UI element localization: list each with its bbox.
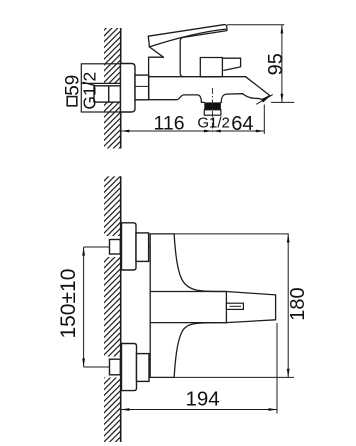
svg-text:95: 95 bbox=[265, 53, 287, 75]
spout top taper bbox=[226, 292, 275, 295]
dimension 180 bbox=[287, 234, 289, 378]
svg-text:116: 116 bbox=[153, 113, 184, 135]
body left edge bbox=[149, 234, 151, 378]
shower outlet thread (black) bbox=[204, 102, 221, 109]
body left edge bbox=[148, 57, 150, 99]
body top edge bbox=[150, 233, 174, 235]
svg-text:G1/2: G1/2 bbox=[197, 115, 230, 132]
dimension 194 bbox=[121, 409, 277, 411]
wall surface line bbox=[120, 176, 122, 442]
dimension 116 / 64 line bbox=[121, 130, 264, 132]
lower connector bbox=[137, 354, 150, 382]
dimension 95 bbox=[227, 25, 294, 103]
diverter block bbox=[200, 58, 222, 77]
wall surface line bbox=[120, 28, 122, 149]
spout band top bbox=[150, 291, 226, 293]
pipe union squares bbox=[94, 86, 121, 102]
body top-left line bbox=[149, 56, 164, 58]
spout divider vertical bbox=[225, 292, 227, 323]
upper escutcheon bbox=[122, 223, 137, 270]
svg-text:64: 64 bbox=[231, 113, 253, 135]
upper connector bbox=[136, 233, 149, 262]
svg-text:180: 180 bbox=[287, 287, 309, 320]
body shoulder line bbox=[149, 76, 246, 78]
outlet axis dash-dot line bbox=[211, 88, 213, 134]
wall hatch upper segment bbox=[104, 28, 121, 84]
upper nut bbox=[110, 240, 121, 255]
lever tail underside diagonal bbox=[149, 47, 163, 57]
cartridge cap top edge bbox=[184, 31, 227, 38]
shower outlet nut bbox=[204, 110, 221, 115]
spout bottom taper bbox=[226, 320, 275, 323]
inlet center lines bbox=[84, 246, 151, 248]
svg-text:194: 194 bbox=[185, 388, 219, 411]
pipe union white backdrop bbox=[94, 83, 121, 102]
dimension 150±10 bbox=[83, 247, 85, 367]
lower nut bbox=[110, 359, 121, 375]
diverter wing bbox=[222, 58, 240, 70]
extension lines top/bottom for 180 bbox=[174, 233, 289, 235]
upper waist curve bbox=[174, 234, 226, 292]
bottom contour left of outlet bbox=[149, 95, 202, 103]
body bottom edge bbox=[150, 376, 174, 378]
wall hatch segments bbox=[104, 176, 121, 236]
spout band bottom bbox=[150, 322, 226, 324]
body plan view bbox=[150, 234, 275, 378]
lever left end bbox=[148, 36, 149, 47]
lower waist curve bbox=[174, 323, 226, 378]
oblique leader to spout tip bbox=[256, 95, 273, 105]
svg-text:150±10: 150±10 bbox=[57, 269, 80, 339]
faucet body side view bbox=[148, 25, 270, 103]
spout tip bottom edge bbox=[262, 96, 270, 100]
tab on spout bbox=[226, 303, 243, 309]
wall hatch lower segment bbox=[104, 102, 121, 148]
label square 59 glyph bbox=[67, 97, 77, 106]
lever top edge + tip bbox=[148, 25, 227, 37]
svg-text:G1/2: G1/2 bbox=[79, 72, 99, 110]
recess box outline bbox=[81, 64, 120, 112]
extension for 64 bbox=[263, 105, 265, 135]
escutcheon side view bbox=[121, 64, 136, 113]
spout right slant edge bbox=[246, 77, 270, 96]
union top line bbox=[81, 82, 120, 84]
cartridge cap left edge bbox=[180, 37, 183, 76]
lower escutcheon bbox=[122, 344, 137, 391]
eccentric connector bbox=[135, 75, 149, 100]
spout tip edge bbox=[275, 295, 277, 320]
lever bottom edge bbox=[149, 29, 225, 47]
bottom contour right of outlet bbox=[221, 94, 262, 103]
